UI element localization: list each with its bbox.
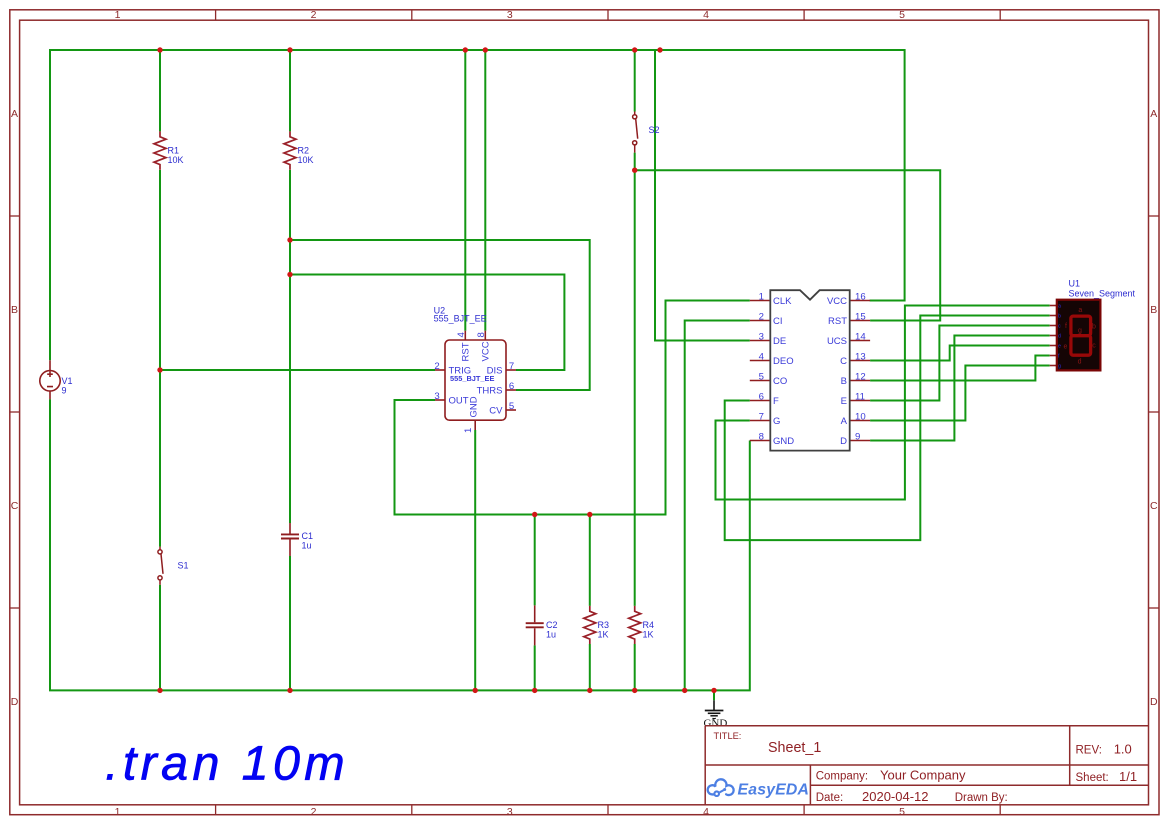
svg-text:5: 5 xyxy=(899,9,905,21)
svg-text:TITLE:: TITLE: xyxy=(714,731,742,741)
svg-text:e: e xyxy=(1058,344,1061,350)
svg-text:555_BJT_EE: 555_BJT_EE xyxy=(450,374,494,383)
wire U2 pin4 RST drop xyxy=(464,50,466,331)
svg-text:GND: GND xyxy=(703,717,727,729)
svg-text:2: 2 xyxy=(311,806,317,818)
svg-text:b: b xyxy=(1092,324,1096,331)
wire R2 top drop xyxy=(289,50,291,131)
svg-text:12: 12 xyxy=(855,371,866,382)
resistor R4 xyxy=(629,606,654,644)
resistor R3 xyxy=(584,606,609,644)
wire A to segment g xyxy=(870,366,1050,421)
svg-text:VCC: VCC xyxy=(827,296,847,307)
svg-text:5: 5 xyxy=(899,806,905,818)
svg-text:DE: DE xyxy=(773,336,786,347)
svg-text:1: 1 xyxy=(463,428,474,433)
svg-text:Seven_Segment: Seven_Segment xyxy=(1069,289,1136,299)
svg-text:7: 7 xyxy=(759,411,764,422)
wire DIS net xyxy=(290,275,564,371)
svg-text:THRS: THRS xyxy=(477,386,503,397)
svg-text:A: A xyxy=(841,416,848,427)
svg-text:10: 10 xyxy=(855,411,866,422)
wire S2 to RST net xyxy=(635,153,941,606)
svg-text:Your Company: Your Company xyxy=(880,768,966,783)
svg-text:B: B xyxy=(11,304,18,316)
svg-text:CI: CI xyxy=(773,316,783,327)
svg-text:Sheet_1: Sheet_1 xyxy=(768,740,821,756)
svg-text:R3: R3 xyxy=(598,620,610,630)
svg-text:g: g xyxy=(1058,364,1061,370)
svg-text:CO: CO xyxy=(773,376,787,387)
svg-text:4: 4 xyxy=(703,9,709,21)
svg-text:C: C xyxy=(840,356,847,367)
wire U2 pin8 VCC drop xyxy=(484,50,486,331)
svg-text:4: 4 xyxy=(456,332,467,338)
wire D to segment d xyxy=(870,336,1050,441)
wire R3 top riser xyxy=(589,515,591,606)
svg-text:e: e xyxy=(1064,343,1068,350)
svg-text:DEO: DEO xyxy=(773,356,794,367)
svg-text:Sheet:: Sheet: xyxy=(1076,772,1109,784)
svg-text:d: d xyxy=(1058,334,1061,340)
svg-text:C2: C2 xyxy=(546,620,558,630)
svg-text:5: 5 xyxy=(759,371,764,382)
svg-text:8: 8 xyxy=(759,431,764,442)
seven segment display U1 xyxy=(1050,279,1136,371)
wire GND bottom rail xyxy=(50,399,750,690)
wire OUT / CLK net xyxy=(395,301,750,515)
svg-text:UCS: UCS xyxy=(827,336,847,347)
svg-text:5: 5 xyxy=(509,401,514,412)
svg-text:VCC: VCC xyxy=(481,341,492,361)
svg-text:1u: 1u xyxy=(302,541,312,551)
capacitor C2 xyxy=(526,605,558,645)
svg-text:d: d xyxy=(1078,359,1082,366)
wire R4 bottom riser xyxy=(634,644,636,690)
svg-text:9: 9 xyxy=(62,386,67,396)
svg-text:1K: 1K xyxy=(643,630,654,640)
svg-text:U1: U1 xyxy=(1069,279,1081,289)
svg-text:555_BJT_EE: 555_BJT_EE xyxy=(434,313,487,323)
svg-text:Date:: Date: xyxy=(816,792,844,804)
svg-text:S2: S2 xyxy=(649,125,660,135)
capacitor C1 xyxy=(281,523,313,556)
svg-text:15: 15 xyxy=(855,311,866,322)
svg-text:6: 6 xyxy=(759,391,764,402)
op-amp U2 555_BJT_EE timer xyxy=(434,305,516,433)
wire B to segment f xyxy=(870,356,1050,381)
wire U2 pin1 GND riser xyxy=(474,430,476,690)
svg-text:1: 1 xyxy=(115,806,121,818)
svg-text:F: F xyxy=(773,396,779,407)
svg-text:a: a xyxy=(1058,304,1061,310)
svg-text:OUT: OUT xyxy=(449,396,469,407)
svg-text:RST: RST xyxy=(828,316,847,327)
wire TRIG net xyxy=(160,170,435,547)
svg-text:7: 7 xyxy=(509,361,514,372)
svg-text:B: B xyxy=(1150,304,1157,316)
svg-text:E: E xyxy=(841,396,847,407)
resistor R2 xyxy=(284,131,314,170)
svg-text:11: 11 xyxy=(855,391,865,402)
svg-text:V1: V1 xyxy=(62,376,73,386)
wire R3 bottom riser xyxy=(589,644,591,690)
wire CI to ground xyxy=(685,321,750,691)
svg-text:1.0: 1.0 xyxy=(1114,741,1132,756)
svg-text:f: f xyxy=(1065,323,1067,330)
svg-text:Company:: Company: xyxy=(816,771,868,783)
svg-text:b: b xyxy=(1058,314,1061,320)
wire C2 top riser xyxy=(534,515,536,606)
svg-text:2: 2 xyxy=(759,311,764,322)
svg-text:16: 16 xyxy=(855,291,866,302)
svg-text:1/1: 1/1 xyxy=(1119,769,1137,784)
svg-text:9: 9 xyxy=(855,431,860,442)
svg-text:1: 1 xyxy=(759,291,764,302)
wire THRS net xyxy=(290,170,590,523)
switch S1 xyxy=(158,547,189,585)
svg-text:B: B xyxy=(841,376,847,387)
svg-text:2020-04-12: 2020-04-12 xyxy=(862,789,929,804)
svg-text:3: 3 xyxy=(434,391,439,402)
svg-text:1u: 1u xyxy=(546,630,556,640)
svg-text:c: c xyxy=(1058,324,1061,330)
svg-text:1: 1 xyxy=(115,9,121,21)
svg-text:6: 6 xyxy=(509,381,514,392)
svg-text:A: A xyxy=(1150,108,1157,120)
svg-text:GND: GND xyxy=(469,396,480,417)
wire VCC top rail net xyxy=(50,50,905,360)
svg-text:D: D xyxy=(1150,696,1158,708)
wire S2 top drop xyxy=(634,50,636,112)
svg-text:D: D xyxy=(840,436,847,447)
wire C2 bottom riser xyxy=(534,645,536,690)
svg-text:R1: R1 xyxy=(168,146,180,156)
svg-text:EasyEDA: EasyEDA xyxy=(738,782,810,799)
svg-text:c: c xyxy=(1092,342,1096,349)
svg-text:C: C xyxy=(1150,500,1158,512)
svg-text:GND: GND xyxy=(773,436,794,447)
svg-text:10K: 10K xyxy=(298,155,314,165)
counter IC (16-pin) xyxy=(750,290,870,450)
wire G to segment a xyxy=(716,306,1050,500)
svg-text:R2: R2 xyxy=(298,146,310,156)
svg-text:4: 4 xyxy=(703,806,709,818)
ground symbol GND xyxy=(703,700,727,729)
svg-text:G: G xyxy=(773,416,780,427)
svg-text:1K: 1K xyxy=(598,630,609,640)
svg-text:3: 3 xyxy=(759,331,764,342)
svg-text:A: A xyxy=(11,108,18,120)
wire C to segment e xyxy=(870,346,1050,361)
svg-text:CLK: CLK xyxy=(773,296,792,307)
title block xyxy=(705,726,1148,805)
wire S1 bottom riser xyxy=(159,585,161,691)
wire C1 bottom riser xyxy=(289,556,291,690)
EasyEDA logo xyxy=(708,779,809,798)
wire DE tie-high drop xyxy=(655,50,750,341)
resistor R1 xyxy=(154,131,184,170)
svg-text:CV: CV xyxy=(489,406,503,417)
wire F to segment b xyxy=(725,316,1050,541)
wire GND symbol stem xyxy=(713,690,715,700)
svg-text:2: 2 xyxy=(434,361,439,372)
svg-text:10K: 10K xyxy=(168,155,184,165)
svg-text:.tran 10m: .tran 10m xyxy=(105,737,349,791)
svg-text:R4: R4 xyxy=(643,620,655,630)
svg-text:4: 4 xyxy=(759,351,765,362)
svg-text:D: D xyxy=(11,696,19,708)
wire R1 top drop xyxy=(159,50,161,131)
svg-text:3: 3 xyxy=(507,806,513,818)
svg-text:Drawn By:: Drawn By: xyxy=(955,792,1008,804)
voltage source V1 xyxy=(40,360,73,399)
svg-text:C1: C1 xyxy=(302,531,314,541)
svg-text:13: 13 xyxy=(855,351,866,362)
svg-text:8: 8 xyxy=(476,332,487,337)
svg-text:14: 14 xyxy=(855,331,866,342)
wire E to segment c xyxy=(870,326,1050,401)
svg-text:3: 3 xyxy=(507,9,513,21)
svg-text:REV:: REV: xyxy=(1076,744,1102,756)
svg-text:2: 2 xyxy=(311,9,317,21)
switch S2 xyxy=(633,112,660,153)
svg-text:g: g xyxy=(1078,327,1082,334)
svg-text:S1: S1 xyxy=(178,561,189,571)
svg-text:C: C xyxy=(11,500,19,512)
svg-text:RST: RST xyxy=(461,342,472,361)
svg-text:a: a xyxy=(1078,307,1082,314)
